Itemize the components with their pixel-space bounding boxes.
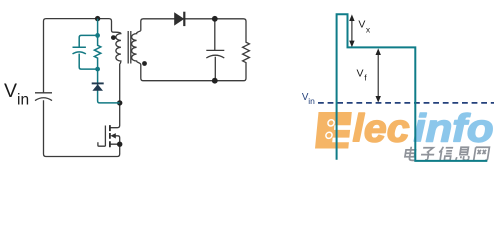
- svg-text:info: info: [414, 108, 494, 151]
- svg-text:V: V: [357, 67, 364, 79]
- svg-text:x: x: [366, 25, 371, 35]
- svg-text:in: in: [17, 92, 29, 109]
- svg-text:f: f: [364, 73, 367, 83]
- svg-text:lec: lec: [353, 108, 410, 151]
- svg-text:in: in: [308, 96, 315, 106]
- svg-text:V: V: [4, 80, 17, 102]
- svg-text:V: V: [358, 18, 365, 30]
